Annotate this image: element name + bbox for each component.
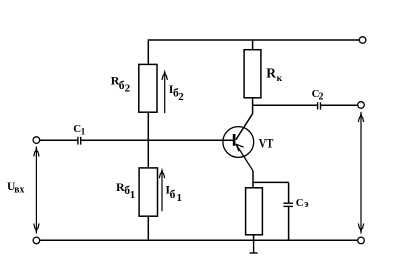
transistor VT: [223, 127, 254, 171]
wire emitter vertical: [252, 171, 254, 188]
svg-text:1: 1: [177, 192, 183, 204]
label VT: [259, 137, 274, 151]
label Rb2: [111, 73, 131, 94]
svg-text:C: C: [296, 197, 304, 209]
wire input to C1: [40, 139, 77, 141]
ground: [250, 240, 258, 253]
wire bottom rail: [40, 239, 358, 241]
svg-text:б: б: [170, 189, 176, 201]
wire base: [81, 139, 233, 141]
wire Ce branch bottom: [288, 206, 290, 240]
label Uvx: [7, 181, 24, 196]
wire collector Rk bottom to transistor: [236, 98, 253, 140]
terminal input top: [33, 137, 40, 144]
svg-text:2: 2: [319, 91, 324, 102]
svg-text:вх: вх: [14, 185, 24, 196]
terminal output bottom: [358, 237, 365, 244]
current arrow Ib2: [162, 69, 167, 113]
svg-text:1: 1: [130, 189, 136, 201]
wire divider middle segment: [147, 112, 149, 168]
capacitor C2: [318, 102, 321, 109]
terminal top-right supply: [359, 37, 366, 44]
wire Re to bottom rail: [253, 235, 255, 241]
wire emitter junction to Ce branch: [253, 181, 289, 183]
wire collector from rail to Rk: [252, 40, 254, 50]
wire divider bottom segment: [147, 216, 149, 240]
terminal output top: [358, 102, 365, 109]
wire top rail: [148, 40, 359, 64]
svg-text:1: 1: [81, 126, 86, 136]
resistor Rb2: [139, 64, 157, 112]
label C1: [73, 123, 86, 136]
svg-text:VT: VT: [259, 137, 274, 151]
label Rk: [266, 66, 282, 85]
capacitor C1: [78, 137, 81, 145]
resistor Re: [246, 188, 263, 235]
wire C2 to output terminal: [321, 104, 358, 106]
label Ce: [296, 197, 309, 210]
current arrow Ib1: [159, 168, 164, 212]
svg-text:2: 2: [125, 82, 131, 94]
arrow input voltage (double-headed): [34, 146, 39, 234]
svg-text:2: 2: [178, 91, 184, 103]
label Ib1: [165, 183, 182, 204]
wire Ce branch top: [288, 182, 290, 203]
capacitor Ce: [283, 203, 293, 206]
svg-text:э: э: [304, 199, 308, 210]
wire output to C2: [253, 104, 317, 106]
resistor Rk: [244, 50, 261, 98]
terminal input bottom: [33, 237, 40, 244]
svg-text:к: к: [277, 74, 283, 84]
label C2: [312, 88, 324, 102]
svg-text:R: R: [266, 66, 276, 81]
resistor Rb1: [139, 168, 157, 216]
label Rb1: [116, 180, 135, 201]
arrow output voltage (double-headed): [358, 111, 363, 234]
label Ib2: [169, 82, 185, 103]
